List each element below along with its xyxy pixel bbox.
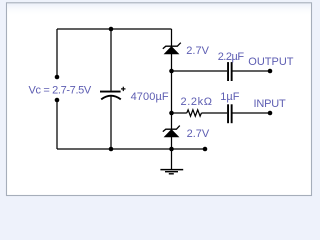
terminal INPUT [268,111,273,116]
svg-text:INPUT: INPUT [254,98,286,110]
wire zener D2 to bottom rail [171,137,173,149]
wire resistor R1 to C3 [201,112,227,114]
terminal Vc+ [55,75,60,80]
junction node input row [169,111,174,116]
wire capacitor C1 branch lower [110,96,112,149]
svg-text:2.2kΩ: 2.2kΩ [181,96,213,108]
zener diode D1 2.7V [163,43,181,54]
svg-text:2.2µF: 2.2µF [218,51,245,63]
wire input node to zener D2 [171,113,173,129]
wire bottom rail [57,148,205,150]
zener diode D2 2.7V [163,126,180,137]
svg-text:OUTPUT: OUTPUT [248,56,293,68]
ground stem [171,149,173,169]
wire zener D1 to output node [171,54,173,71]
wire capacitor C1 branch upper [110,29,112,91]
resistor R1 2.2k zigzag [187,110,202,116]
junction node bottom of C1 [109,147,114,152]
capacitor C1 4700uF (polarized) [100,91,121,100]
wire right branch top (to zener D1) [171,29,173,46]
ground symbol [160,170,183,174]
wire output row right (C2 to OUTPUT terminal) [232,70,270,72]
wire left branch upper (Vc+ lead) [56,29,58,77]
wire left branch lower (Vc- lead) [56,100,58,149]
svg-text:2.7V: 2.7V [187,128,210,140]
terminal Vc- [55,98,60,103]
wire output node to input node [171,71,173,113]
plus mark of C1 [121,87,126,91]
wire input row right (C3 to INPUT terminal) [232,112,270,114]
junction node top of C1 [109,27,114,32]
junction node output row [169,69,174,74]
wire output row left (node to C2) [172,70,228,72]
wire input row left (node to resistor R1) [172,112,187,114]
terminal OUTPUT [268,69,273,74]
wire top rail [57,28,172,30]
terminal bottom rail end [203,147,208,152]
capacitor C3 1uF [227,104,232,123]
capacitor C2 2.2uF [227,62,232,81]
svg-text:Vc = 2.7-7.5V: Vc = 2.7-7.5V [29,85,92,97]
junction node ground [169,147,174,152]
svg-text:4700µF: 4700µF [131,91,169,103]
svg-text:1µF: 1µF [220,91,239,103]
svg-text:2.7V: 2.7V [186,45,209,57]
